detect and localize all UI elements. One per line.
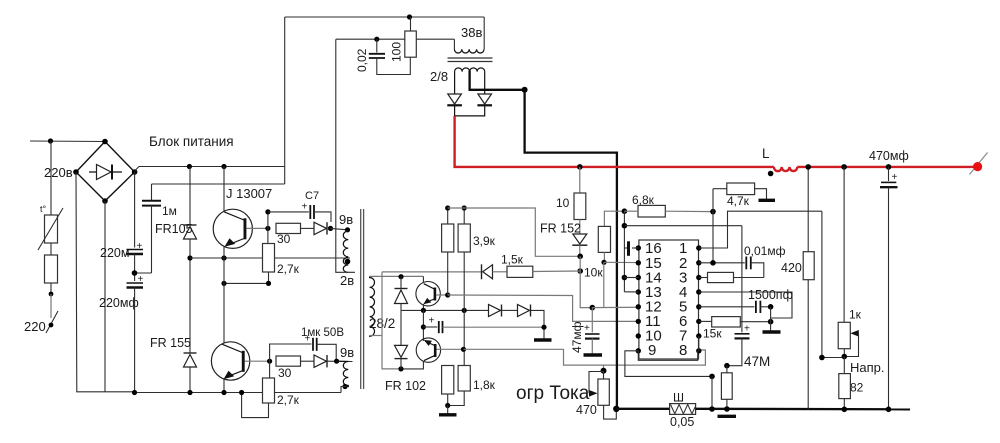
resistor 4.7k xyxy=(713,183,775,208)
svg-text:30: 30 xyxy=(278,366,292,380)
node 10k bottom pin15 xyxy=(601,260,606,265)
svg-text:0,05: 0,05 xyxy=(670,415,694,429)
node 3.9k tops xyxy=(445,205,450,210)
capacitor 1mk 50V xyxy=(301,327,344,361)
wire cathode tie xyxy=(455,105,485,116)
wire Q3base to pin11 xyxy=(448,295,638,321)
node rail 470mf xyxy=(886,407,892,413)
wire pin1 net down xyxy=(822,211,844,357)
node winding2 bottom xyxy=(342,384,347,389)
transformer core vertical xyxy=(361,209,364,389)
node red 10 tap xyxy=(577,164,583,170)
node black feed corner xyxy=(522,87,528,93)
wire pin7 pin8 tie xyxy=(698,336,700,351)
svg-text:2в: 2в xyxy=(340,273,354,288)
wire diode row y310 xyxy=(401,309,489,311)
capacitor 1500pf xyxy=(748,288,793,313)
diode Q2 base xyxy=(301,355,353,367)
winding 9v bottom xyxy=(337,361,349,386)
svg-text:4,7к: 4,7к xyxy=(727,194,750,208)
resistor 1.5k xyxy=(501,253,580,278)
resistor 100 xyxy=(390,17,417,62)
thermistor t xyxy=(38,204,63,250)
node red 420 xyxy=(805,164,811,170)
node snubber tap xyxy=(374,37,379,42)
diode FR152 xyxy=(540,220,587,257)
svg-text:38в: 38в xyxy=(461,25,482,40)
svg-text:470: 470 xyxy=(576,403,597,417)
ground res bottom xyxy=(718,415,737,418)
svg-text:1,5к: 1,5к xyxy=(501,253,524,267)
capacitor 47mf xyxy=(570,308,602,355)
capacitor pin16 xyxy=(624,241,638,256)
resistor 10 xyxy=(556,167,586,220)
transistor Q1 J13007 xyxy=(213,167,272,259)
svg-text:FR 152: FR 152 xyxy=(540,222,581,236)
winding 2v xyxy=(343,257,348,272)
node bridge right xyxy=(132,169,138,175)
node rail 82 xyxy=(842,407,848,413)
capacitor 1mk mid xyxy=(423,316,544,334)
potentiometer 470 xyxy=(576,371,616,419)
svg-text:0,01мф: 0,01мф xyxy=(744,244,786,258)
wire 624 vertical xyxy=(623,211,625,292)
svg-text:8: 8 xyxy=(679,342,687,359)
node 2v tap xyxy=(345,259,351,265)
resistor 6.8k xyxy=(624,193,713,217)
capacitor 0.01mf xyxy=(744,244,786,278)
node rail FR xyxy=(187,390,192,395)
diode Q1 base xyxy=(301,222,328,234)
resistor 1.8k 1 xyxy=(442,366,454,406)
resistor 30 Q1 xyxy=(276,223,301,246)
resistor 82 xyxy=(839,357,864,410)
svg-text:t°: t° xyxy=(40,204,47,214)
wire pin6 xyxy=(699,320,712,322)
node T1 emitter junction xyxy=(221,255,226,260)
diode 1.5k row xyxy=(482,264,508,279)
diode FR155 xyxy=(150,336,197,367)
svg-text:9в: 9в xyxy=(340,345,354,360)
resistor 420 xyxy=(781,167,814,409)
node red 470mf xyxy=(886,164,892,170)
wire 2/8 left leg xyxy=(454,72,456,94)
node rail 712 xyxy=(709,406,715,412)
wire FR line top xyxy=(189,167,191,226)
node 1.8k gnd xyxy=(445,403,450,408)
wire fb rail 713 xyxy=(712,189,714,263)
svg-text:+: + xyxy=(138,274,144,285)
capacitor 220mf xyxy=(99,274,144,310)
node 2.7k bottom xyxy=(266,281,271,286)
wire snubber row xyxy=(336,38,455,40)
wire Q4 base vertical xyxy=(463,310,465,365)
wire top rail xyxy=(285,16,485,18)
svg-text:+: + xyxy=(744,324,750,335)
resistor 10k xyxy=(598,211,617,262)
wire black feed xyxy=(470,71,525,90)
node diode gnd join xyxy=(541,325,546,330)
node 1m join xyxy=(132,270,138,276)
capacitor 47M xyxy=(727,324,770,370)
wire pin14 xyxy=(624,277,638,279)
node pin9 wrap xyxy=(709,374,715,380)
wire 2.7k to midpoint xyxy=(224,282,269,284)
diode FR102 top xyxy=(395,277,408,311)
wire pin9 wrap xyxy=(625,351,712,377)
capacitor 0.02 xyxy=(355,39,410,74)
wire A to 1.5k xyxy=(382,271,482,273)
winding 2/8 secondary xyxy=(455,68,485,72)
wire bottom rail right xyxy=(616,408,669,410)
ground diodes xyxy=(534,338,552,341)
wire pin13 xyxy=(624,291,638,293)
node T1 collector rail xyxy=(221,164,226,169)
wire Q1 base xyxy=(246,227,268,229)
wire winding top B xyxy=(370,275,424,277)
wire 2v tap xyxy=(190,257,350,259)
ground 1500pf xyxy=(763,307,781,332)
node 1500 gnd top xyxy=(768,304,774,310)
node pot1k bottom xyxy=(842,354,848,360)
node 2v wire left xyxy=(187,255,192,260)
svg-text:10к: 10к xyxy=(584,266,603,280)
wire raw plus rail xyxy=(135,167,285,172)
wire 10k net down xyxy=(603,262,605,307)
node 3.9k2 310 xyxy=(462,308,467,313)
svg-text:Напр.: Напр. xyxy=(850,360,885,375)
svg-text:47M: 47M xyxy=(744,354,770,369)
svg-text:6,8к: 6,8к xyxy=(632,193,655,207)
wire Q4 base long xyxy=(464,349,706,365)
node bridge left xyxy=(73,169,79,175)
node rail Q2 emitter xyxy=(221,390,226,395)
svg-text:Блок питания: Блок питания xyxy=(149,134,234,149)
node pin2 xyxy=(710,260,716,266)
capacitor 220m xyxy=(100,241,143,260)
resistor 2.7k Q1 xyxy=(263,228,300,283)
node Q4 base xyxy=(461,347,466,352)
IC pin numbers right xyxy=(679,240,687,359)
node rail 220 xyxy=(132,390,137,395)
svg-text:1м: 1м xyxy=(162,204,177,218)
wire 220cap chain top xyxy=(134,172,136,248)
node rail res xyxy=(724,406,730,412)
resistor 3.9k 1 xyxy=(442,208,454,295)
svg-text:Ш: Ш xyxy=(673,391,684,405)
wire red main xyxy=(797,166,973,168)
shunt Sh xyxy=(670,391,696,430)
wire to thermistor xyxy=(50,141,52,215)
svg-text:2/8: 2/8 xyxy=(430,69,448,84)
svg-text:+: + xyxy=(892,172,898,183)
diode FR102 bottom xyxy=(385,310,426,393)
IC pin numbers left xyxy=(645,240,662,359)
transformer core horizontal xyxy=(448,58,493,62)
resistor 30 Q2 xyxy=(276,356,301,380)
node 6.8k left xyxy=(622,208,628,214)
wire 741 down 47M xyxy=(741,226,743,333)
wire bottom rail far right xyxy=(696,408,910,411)
node rail 2.7k return xyxy=(239,390,244,395)
node Q3 base xyxy=(445,292,450,297)
svg-text:2,7к: 2,7к xyxy=(277,262,300,276)
svg-text:L: L xyxy=(762,146,770,161)
wire 6.8k left rail xyxy=(617,210,625,212)
wire bottom rail left xyxy=(135,392,341,394)
wire 220mf down xyxy=(134,288,136,393)
svg-text:1мк 50В: 1мк 50В xyxy=(301,327,344,339)
switch arm xyxy=(46,311,58,333)
wire rail to winding2 xyxy=(341,387,347,393)
resistor 1.8k 2 xyxy=(448,366,496,406)
node switch top xyxy=(49,292,54,297)
node vcc top xyxy=(577,253,583,259)
wire between 220 caps xyxy=(134,254,136,281)
wire A down left leg xyxy=(382,272,401,369)
svg-text:0,02: 0,02 xyxy=(355,48,369,72)
node diode C7 junction xyxy=(328,226,333,231)
wire switch gap xyxy=(50,294,52,318)
svg-text:J 13007: J 13007 xyxy=(226,186,272,201)
svg-text:470мф: 470мф xyxy=(869,149,909,163)
node C7 left xyxy=(265,209,270,214)
resistor unlabeled xyxy=(721,366,732,409)
node res top xyxy=(724,363,730,369)
svg-text:2,7к: 2,7к xyxy=(277,393,300,407)
wire 225 to 741 xyxy=(624,225,742,227)
wire bridge bottom down xyxy=(104,201,106,392)
wire red start xyxy=(455,116,774,167)
node Q2 base xyxy=(267,359,272,364)
node wire 225 xyxy=(622,223,628,229)
wire 3.9k top rail xyxy=(448,208,581,256)
svg-text:220м: 220м xyxy=(100,246,129,260)
svg-text:3,9к: 3,9к xyxy=(473,234,496,248)
svg-text:+: + xyxy=(429,316,435,327)
diode D2 rect xyxy=(477,94,492,105)
wire base to C7 row xyxy=(267,212,269,229)
node mid 310 xyxy=(421,308,426,313)
winding 9v top xyxy=(343,230,348,257)
wire pin15 xyxy=(604,261,638,263)
wire feedback vertical xyxy=(336,39,355,272)
svg-text:1500пф: 1500пф xyxy=(748,288,793,302)
node winding1 top xyxy=(345,227,350,232)
wire 1m top xyxy=(152,183,285,185)
wire mains top xyxy=(30,140,105,143)
red terminal xyxy=(970,153,988,175)
node rail black join xyxy=(613,406,619,412)
node pot470 top xyxy=(601,368,607,374)
node bridge bottom xyxy=(102,198,108,204)
svg-text:1к: 1к xyxy=(849,308,862,322)
node FR102 diode top xyxy=(398,274,403,279)
svg-text:9в: 9в xyxy=(339,212,353,227)
bridge rectifier diamond xyxy=(76,142,135,202)
svg-text:15к: 15к xyxy=(703,327,722,341)
potentiometer 1k xyxy=(838,167,861,357)
svg-text:30: 30 xyxy=(277,232,291,246)
inductor L red xyxy=(774,167,797,171)
svg-text:9: 9 xyxy=(648,342,656,359)
wire 712 down xyxy=(711,376,713,409)
wire pin5 xyxy=(699,306,755,308)
node 15k gnd xyxy=(768,319,774,325)
node bridge top xyxy=(102,139,108,145)
wire base up to 1mk row xyxy=(270,344,312,361)
IC U1 body xyxy=(639,240,699,359)
svg-text:+: + xyxy=(302,202,308,213)
wire fuse down xyxy=(50,283,52,294)
node FR105 rail xyxy=(187,164,192,169)
node cap mid xyxy=(421,324,426,329)
svg-text:+: + xyxy=(137,241,143,252)
wire half bridge mid xyxy=(223,258,225,343)
wire junction to winding1 xyxy=(331,228,348,229)
node 100 top xyxy=(407,14,412,19)
svg-text:220в: 220в xyxy=(44,165,73,180)
wire black feed down xyxy=(525,90,617,409)
wire FR105 to FR155 xyxy=(189,239,191,353)
resistor 3.9k 2 xyxy=(458,208,496,310)
svg-text:10: 10 xyxy=(556,196,570,210)
node 47mf top xyxy=(590,305,596,311)
winding 38v primary xyxy=(454,17,484,53)
capacitor 470mf xyxy=(869,149,909,409)
svg-text:220мф: 220мф xyxy=(99,296,139,310)
svg-text:FR 155: FR 155 xyxy=(150,336,191,350)
node stray below L xyxy=(768,171,774,177)
svg-text:+: + xyxy=(584,323,590,334)
svg-text:420: 420 xyxy=(781,261,802,275)
svg-text:FR105: FR105 xyxy=(155,222,193,236)
capacitor 1m xyxy=(135,184,177,273)
svg-text:100: 100 xyxy=(390,42,404,62)
ground 1.8k xyxy=(439,406,457,415)
winding 28/2 xyxy=(370,276,375,336)
node Q1 base xyxy=(265,226,270,231)
node red 1k xyxy=(841,164,847,170)
diode series 1 xyxy=(489,305,518,317)
svg-text:огр Тока: огр Тока xyxy=(516,383,590,404)
transistor Q2 J13007 xyxy=(211,342,249,393)
svg-text:C7: C7 xyxy=(305,190,319,202)
IC pin dots left xyxy=(636,245,641,353)
resistor pin3 xyxy=(699,272,764,282)
transistor Q4 xyxy=(416,338,463,362)
svg-text:47мф: 47мф xyxy=(570,321,584,353)
wire pin4 xyxy=(699,292,792,318)
svg-text:1,8к: 1,8к xyxy=(473,378,496,392)
node pin14 xyxy=(622,275,628,281)
wire FR155 down xyxy=(189,367,191,393)
wire thermistor to fuse xyxy=(50,243,52,255)
node 1.5k end xyxy=(577,268,583,274)
wire Q2 base xyxy=(245,360,270,362)
resistor 2.7k Q2 xyxy=(242,361,300,417)
wire winding bottom stub xyxy=(370,335,382,337)
node midpoint 283 xyxy=(221,281,226,286)
node switch bottom xyxy=(49,323,54,328)
fuse resistor xyxy=(45,255,58,283)
wire left return down xyxy=(76,172,135,392)
wire vcc down xyxy=(580,256,592,307)
svg-text:220: 220 xyxy=(24,319,46,334)
wire bottom to Q4 xyxy=(401,361,423,369)
wire mid vertical xyxy=(422,310,424,340)
diode FR105 xyxy=(155,222,197,239)
wire pin2 xyxy=(699,262,745,264)
wire 2/8 right leg xyxy=(484,72,486,94)
diode D1 rect xyxy=(447,94,462,105)
node mains tap xyxy=(48,138,53,143)
node Q4 bottom xyxy=(398,366,403,371)
svg-text:FR 102: FR 102 xyxy=(385,379,426,393)
node 6.8k right xyxy=(710,209,716,215)
transistor Q3 xyxy=(416,276,448,310)
node pin1 net xyxy=(819,355,825,361)
diode series 2 xyxy=(518,305,545,340)
wire vertical to top rail xyxy=(284,17,286,184)
IC pin dots right xyxy=(696,245,701,353)
capacitor C7 xyxy=(268,190,331,222)
node winding2 top xyxy=(334,359,339,364)
wire U tie 9 8 xyxy=(638,351,697,361)
node pot top stub xyxy=(603,365,605,371)
wire pin12 xyxy=(592,306,637,308)
resistor 15k xyxy=(703,317,771,341)
svg-text:82: 82 xyxy=(850,381,864,395)
wire pin1 to 420 row xyxy=(699,211,822,248)
